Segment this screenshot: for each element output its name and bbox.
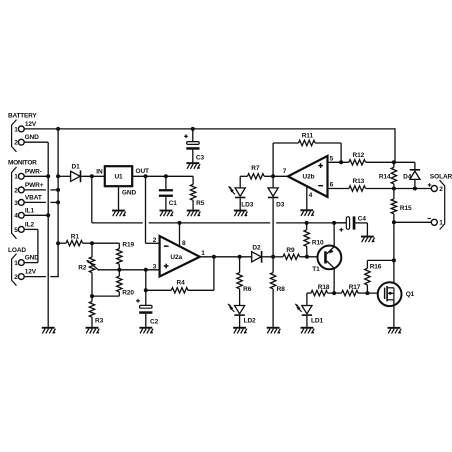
- label R14: [379, 174, 391, 181]
- label R3: [95, 317, 104, 324]
- label R4: [177, 279, 186, 286]
- label IN: [96, 168, 103, 175]
- svg-text:R20: R20: [122, 290, 134, 297]
- ground R8: [267, 327, 281, 334]
- wire 12V bus to D1: [56, 175, 70, 177]
- label + C2: [136, 299, 140, 303]
- label R11: [302, 132, 314, 139]
- svg-text:OUT: OUT: [136, 168, 150, 175]
- wire IL1 to GND bus: [24, 214, 48, 216]
- diode D1: [71, 170, 82, 182]
- wire R1 to R19: [92, 242, 119, 244]
- wire D1 cathode to U1 IN: [81, 175, 105, 177]
- ground C2: [139, 327, 153, 334]
- connector J4 pin 1 (-): [431, 219, 443, 226]
- wire R12 to D4 top: [394, 162, 415, 169]
- label minus U2a: [164, 245, 169, 247]
- resistor R14: [391, 162, 396, 188]
- svg-text:GND: GND: [25, 255, 40, 262]
- node R1 12V junction: [56, 241, 60, 245]
- wire Vref to U2a pin2: [146, 176, 160, 243]
- svg-text:D2: D2: [252, 245, 261, 252]
- resistor R3: [89, 296, 94, 327]
- wire gate: [367, 292, 384, 294]
- svg-text:LD3: LD3: [241, 201, 253, 208]
- label D1: [72, 164, 81, 171]
- node mid rail R10: [305, 221, 309, 225]
- label D3: [276, 201, 285, 208]
- op-amp U2a: [160, 236, 200, 277]
- label IL1: [25, 207, 35, 214]
- label R12: [353, 152, 365, 159]
- node T1 collector R18 R17 junction: [332, 291, 336, 295]
- label C2: [150, 318, 159, 325]
- resistor R6: [237, 257, 242, 306]
- label LD3: [241, 201, 253, 208]
- svg-text:R14: R14: [379, 174, 391, 181]
- label D4: [403, 174, 412, 181]
- svg-text:R19: R19: [122, 242, 134, 249]
- label pin7: [283, 168, 287, 175]
- svg-text:GND: GND: [25, 134, 40, 141]
- svg-text:12V: 12V: [25, 269, 37, 276]
- capacitor C4: [346, 216, 367, 235]
- svg-text:4: 4: [14, 213, 18, 220]
- resistor R16: [365, 260, 394, 293]
- led LD1: [295, 293, 312, 327]
- svg-text:C4: C4: [358, 216, 367, 223]
- svg-text:2: 2: [153, 237, 157, 244]
- svg-text:IL2: IL2: [25, 222, 35, 229]
- label U2a: [170, 254, 182, 261]
- node mid rail U2a pin8: [178, 221, 182, 225]
- svg-text:C1: C1: [169, 200, 178, 207]
- label + C4: [339, 228, 343, 232]
- node pin7 junction: [271, 174, 275, 178]
- svg-text:1: 1: [14, 126, 18, 133]
- svg-text:R18: R18: [318, 284, 330, 291]
- wire battery 12V top rail: [24, 128, 395, 162]
- node R15 solar- junction: [392, 220, 396, 224]
- label C3: [196, 155, 205, 162]
- wire unregulated rail drop: [91, 176, 93, 223]
- wire C4 left: [334, 222, 346, 224]
- resistor R17: [334, 290, 367, 295]
- label 12V load: [25, 269, 37, 276]
- label - solar: [428, 217, 431, 219]
- svg-text:R16: R16: [370, 264, 382, 271]
- svg-text:SOLAR: SOLAR: [430, 174, 452, 181]
- svg-text:R12: R12: [353, 152, 365, 159]
- connector J1 BATTERY bracket: [12, 120, 17, 152]
- svg-text:2: 2: [14, 187, 18, 194]
- svg-text:C3: C3: [196, 155, 205, 162]
- connector J3 pin 2 (12V): [14, 274, 24, 281]
- label Q1: [406, 291, 415, 298]
- wire C3 stem: [192, 129, 194, 142]
- node R12 R14 junction: [392, 160, 396, 164]
- node top rail to C3: [191, 127, 195, 131]
- resistor R9: [273, 254, 324, 259]
- node D2 D3 R8 R9 junction: [271, 255, 275, 259]
- svg-text:LOAD: LOAD: [8, 247, 26, 254]
- connector J2 pin 5 (IL2): [14, 227, 24, 234]
- node top rail to 12V bus: [56, 127, 60, 131]
- svg-text:R15: R15: [400, 205, 412, 212]
- connector J2 pin 2 (PWR+): [14, 187, 24, 194]
- label pin3: [153, 263, 157, 270]
- node output R6 junction: [238, 255, 242, 259]
- node base R10 junction: [305, 255, 309, 259]
- svg-text:T1: T1: [312, 266, 320, 273]
- node D1 anode junction: [56, 174, 60, 178]
- label LOAD: [8, 247, 26, 254]
- svg-text:R17: R17: [349, 284, 361, 291]
- label + solar: [428, 183, 432, 187]
- node D1 cathode junction: [90, 174, 94, 178]
- svg-text:3: 3: [14, 200, 18, 207]
- resistor R20: [117, 270, 122, 296]
- capacitor C1: [159, 176, 173, 209]
- connector J4 SOLAR bracket: [440, 180, 445, 229]
- label OUT: [136, 168, 150, 175]
- resistor R5: [190, 176, 195, 209]
- svg-text:IL1: IL1: [25, 207, 35, 214]
- svg-text:2: 2: [439, 186, 443, 193]
- svg-text:GND: GND: [122, 190, 137, 197]
- led LD3: [229, 176, 246, 209]
- wire battery GND to GND bus: [24, 142, 48, 327]
- diode D4: [410, 169, 420, 189]
- wire U2a pin8 supply: [179, 223, 181, 246]
- resistor R8: [270, 257, 275, 327]
- label R15: [400, 205, 412, 212]
- label 12V: [25, 121, 37, 128]
- ground LD2: [233, 327, 247, 334]
- wire R15 to drain: [393, 222, 395, 287]
- transistor T1: [318, 246, 342, 270]
- label R6: [243, 286, 252, 293]
- label pin1: [201, 250, 205, 257]
- svg-text:8: 8: [182, 240, 186, 247]
- wire T1 emitter up: [333, 223, 335, 247]
- node R19 R20 junction: [117, 268, 121, 272]
- node R1 R2 R19 junction: [90, 241, 94, 245]
- wire mid rail: [92, 222, 346, 224]
- svg-text:R8: R8: [277, 286, 286, 293]
- svg-text:C2: C2: [150, 318, 159, 325]
- node OUT to U2a pin2: [144, 174, 148, 178]
- label VBAT: [25, 195, 42, 202]
- svg-text:4: 4: [309, 192, 313, 199]
- svg-text:PWR+: PWR+: [25, 182, 44, 189]
- ground GND bus: [42, 327, 56, 334]
- resistor R18: [307, 290, 334, 295]
- label T1: [312, 266, 320, 273]
- label R8: [277, 286, 286, 293]
- wire U2b pin4: [306, 186, 308, 209]
- label R16: [370, 264, 382, 271]
- svg-text:R2: R2: [78, 265, 87, 272]
- label R19: [122, 242, 134, 249]
- regulator U1: [105, 166, 132, 186]
- node VBAT junction: [56, 200, 60, 204]
- label C1: [169, 200, 178, 207]
- label BATTERY: [8, 113, 37, 120]
- label LD2: [244, 317, 256, 324]
- svg-text:5: 5: [14, 227, 18, 234]
- svg-text:PWR-: PWR-: [25, 168, 42, 175]
- label minus U2b: [318, 185, 323, 187]
- wire LOAD 12V to 12V bus: [24, 276, 59, 278]
- resistor R7: [248, 174, 265, 179]
- node pin3 junction: [144, 268, 148, 272]
- label IL2: [25, 222, 35, 229]
- svg-text:D1: D1: [72, 164, 81, 171]
- svg-text:R6: R6: [243, 286, 252, 293]
- wire pin7 line: [240, 175, 288, 177]
- svg-text:1: 1: [14, 174, 18, 181]
- ground C4: [361, 236, 375, 243]
- trimmer R2: [86, 243, 99, 296]
- svg-text:1: 1: [14, 260, 18, 267]
- resistor R11: [273, 140, 341, 176]
- label R1: [71, 233, 80, 240]
- svg-text:Q1: Q1: [406, 291, 415, 298]
- label R2: [78, 265, 87, 272]
- connector J2 pin 1 (PWR-): [14, 173, 24, 180]
- label R9: [286, 247, 295, 254]
- wire PWR- to GND bus: [24, 175, 50, 177]
- wire pin5 line: [328, 161, 349, 163]
- wire T1 collector down: [333, 268, 335, 293]
- label plus U2b: [318, 163, 323, 168]
- svg-text:12V: 12V: [25, 121, 37, 128]
- ground LD3: [234, 210, 248, 217]
- connector J1 pin 2 (GND): [14, 139, 24, 146]
- label LD1: [311, 317, 323, 324]
- wire solar- line: [394, 221, 432, 223]
- op-amp U2b: [288, 156, 328, 197]
- label GND: [25, 134, 40, 141]
- wire IL2 to LOAD GND: [24, 229, 38, 262]
- resistor R4: [171, 288, 188, 293]
- label pin6: [330, 182, 334, 189]
- svg-text:R5: R5: [196, 200, 205, 207]
- svg-text:7: 7: [283, 168, 287, 175]
- diode D2: [252, 251, 263, 263]
- node drain R16 junction: [392, 258, 396, 262]
- svg-text:MONITOR: MONITOR: [8, 159, 37, 166]
- resistor R19: [117, 243, 122, 270]
- ground LD1: [301, 327, 315, 334]
- label PWR-: [25, 168, 42, 175]
- resistor R15: [391, 189, 396, 223]
- svg-text:R10: R10: [312, 239, 324, 246]
- label D2: [252, 245, 261, 252]
- wire VBAT to 12V bus: [24, 201, 58, 203]
- svg-text:1: 1: [201, 250, 205, 257]
- connector J2 pin 3 (VBAT): [14, 200, 24, 207]
- wire U2a output: [200, 256, 252, 258]
- label plus U2a: [164, 264, 169, 269]
- connector J1 pin 1 (12V): [14, 126, 24, 133]
- node OUT to C1: [164, 174, 168, 178]
- connector J2 MONITOR bracket: [12, 167, 17, 239]
- svg-text:VBAT: VBAT: [25, 195, 42, 202]
- wire U2a pin3 input: [98, 269, 159, 271]
- svg-text:U2b: U2b: [303, 174, 315, 181]
- svg-text:D4: D4: [403, 174, 412, 181]
- label R10: [312, 239, 324, 246]
- ground R3: [86, 327, 100, 334]
- label R7: [251, 165, 260, 172]
- svg-text:2: 2: [14, 140, 18, 147]
- diode D3: [268, 176, 278, 256]
- label U2b: [303, 174, 315, 181]
- label R5: [196, 200, 205, 207]
- svg-text:LD2: LD2: [244, 317, 256, 324]
- wire 12V bus vertical: [57, 129, 59, 277]
- wire pin6 line: [328, 188, 349, 190]
- connector J2 pin 4 (IL1): [14, 212, 24, 219]
- node D4 anode junction: [413, 187, 417, 191]
- connector J3 LOAD bracket: [12, 254, 17, 286]
- label + C3: [184, 134, 188, 138]
- ground U1: [112, 210, 126, 217]
- wire Q1 source to ground: [393, 300, 395, 327]
- wire U1 OUT line: [132, 175, 193, 177]
- ground C1: [160, 210, 174, 217]
- svg-text:R9: R9: [286, 247, 295, 254]
- wire R20 bottom to R2 bottom: [92, 295, 119, 297]
- connector J4 pin 2 (+): [431, 186, 443, 193]
- mosfet Q1: [378, 282, 402, 306]
- node R13 R14 junction: [392, 187, 396, 191]
- label R13: [353, 178, 365, 185]
- label C4: [358, 216, 367, 223]
- svg-text:R7: R7: [251, 165, 260, 172]
- ground Q1: [388, 327, 402, 334]
- label pin5: [330, 156, 334, 163]
- wire R13 to solar+: [394, 188, 432, 190]
- label pin4: [309, 192, 313, 199]
- label pin8: [182, 240, 186, 247]
- node R2 R3 junction: [90, 294, 94, 298]
- node PWR- junction: [46, 174, 50, 178]
- svg-text:6: 6: [330, 182, 334, 189]
- resistor R13: [349, 186, 394, 191]
- node R4 C2 junction: [144, 288, 148, 292]
- svg-text:R13: R13: [353, 178, 365, 185]
- label GND load: [25, 255, 40, 262]
- wire pin3 down to R4: [145, 270, 147, 306]
- label pin2: [153, 237, 157, 244]
- led LD2: [228, 304, 245, 327]
- wire U1 GND pin: [118, 186, 120, 210]
- capacitor C2: [139, 305, 152, 327]
- svg-text:U1: U1: [114, 174, 123, 181]
- svg-text:LD1: LD1: [311, 317, 323, 324]
- svg-text:1: 1: [439, 220, 443, 227]
- node pin5 R11 junction: [339, 160, 343, 164]
- svg-text:U2a: U2a: [170, 254, 182, 261]
- label R17: [349, 284, 361, 291]
- svg-text:IN: IN: [96, 168, 103, 175]
- label U1: [114, 174, 123, 181]
- label GND U1: [122, 190, 137, 197]
- svg-text:D3: D3: [276, 201, 285, 208]
- ground U2b pin4: [300, 209, 314, 216]
- node PWR+ junction: [56, 188, 60, 192]
- svg-text:5: 5: [330, 156, 334, 163]
- svg-text:R11: R11: [302, 132, 314, 139]
- node output R4 junction: [212, 255, 216, 259]
- resistor R10: [304, 223, 309, 257]
- label MONITOR: [8, 159, 37, 166]
- wire D2 cathode: [262, 256, 273, 258]
- svg-text:R4: R4: [177, 279, 186, 286]
- label SOLAR: [430, 174, 452, 181]
- label PWR+: [25, 182, 44, 189]
- resistor R12: [349, 160, 394, 165]
- label R20: [122, 290, 134, 297]
- node mid rail T1 emitter: [332, 221, 336, 225]
- svg-text:R3: R3: [95, 317, 104, 324]
- connector J3 pin 1 (GND): [14, 260, 24, 267]
- resistor R1: [58, 241, 92, 246]
- node IL1 junction: [46, 213, 50, 217]
- wire R4 line: [146, 257, 214, 291]
- svg-text:BATTERY: BATTERY: [8, 113, 37, 120]
- wire PWR+ to 12V bus: [24, 189, 58, 191]
- ground R5: [187, 210, 201, 217]
- label R18: [318, 284, 330, 291]
- svg-text:2: 2: [14, 274, 18, 281]
- svg-text:R1: R1: [71, 233, 80, 240]
- node gate R16 junction: [365, 291, 369, 295]
- ground C3: [186, 162, 200, 169]
- capacitor C3: [186, 142, 199, 163]
